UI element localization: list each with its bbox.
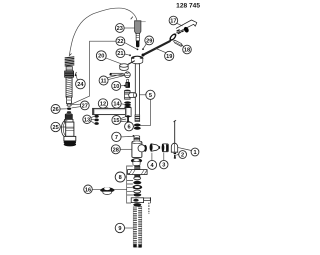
balloon 4 [148, 160, 157, 169]
balloon 16 [84, 185, 93, 194]
balloon 3 [160, 160, 168, 168]
balloon 9 [115, 223, 124, 232]
strap clip [174, 40, 183, 46]
balloon 27 [80, 101, 89, 110]
dark ring [67, 111, 71, 113]
balloon 17 [169, 16, 178, 25]
svg-text:27: 27 [82, 103, 88, 109]
dot 29 [142, 48, 144, 50]
balloon 1 [191, 148, 199, 156]
svg-text:3: 3 [162, 163, 165, 169]
white ring2 [134, 190, 141, 193]
cap 20 [120, 61, 135, 71]
balloon 26 [51, 105, 60, 114]
cartridge with wings [128, 166, 148, 177]
spout tube 12 [93, 108, 132, 117]
nuts 13 [94, 115, 98, 125]
balloon 2 [179, 151, 187, 159]
svg-text:15: 15 [113, 118, 119, 124]
threaded shank 9 [133, 207, 142, 248]
cut tick near weight [131, 17, 133, 20]
balloon 23 [115, 24, 124, 33]
balloon 29 [145, 36, 154, 45]
svg-text:16: 16 [85, 187, 91, 193]
white ring [134, 177, 141, 180]
black ring 26 [67, 108, 71, 110]
svg-text:6: 6 [127, 125, 130, 131]
balloon 28 [111, 145, 120, 154]
collar [66, 67, 72, 71]
svg-text:26: 26 [52, 107, 58, 113]
tick by nut [75, 72, 77, 76]
svg-text:128 745: 128 745 [176, 3, 200, 10]
o-ring [133, 181, 141, 185]
svg-text:10: 10 [113, 84, 119, 90]
svg-text:29: 29 [146, 38, 152, 44]
part 16 [100, 187, 115, 194]
dark ring [133, 193, 141, 196]
svg-text:5: 5 [149, 93, 152, 99]
svg-text:25: 25 [52, 125, 58, 131]
bracket 8 [127, 166, 134, 204]
leader balloon22 long polyline [72, 41, 116, 104]
balloon 25 [51, 122, 60, 131]
cap 7 [133, 135, 140, 142]
cut tick near spring [70, 54, 72, 56]
svg-text:11: 11 [101, 79, 107, 85]
balloon 24 [76, 79, 86, 89]
o-rings 6 [134, 124, 141, 127]
svg-text:9: 9 [118, 226, 121, 232]
flange at top of riser [131, 56, 143, 64]
balloon 22 [116, 37, 125, 46]
balloon 5 [146, 90, 155, 99]
balloon 15 [112, 116, 121, 125]
part 4 [150, 144, 161, 152]
rings 14 [124, 101, 131, 108]
dot 21 [129, 54, 131, 56]
balloon 21 [116, 49, 125, 58]
svg-text:13: 13 [84, 117, 90, 123]
knob part [125, 72, 131, 78]
pin bar 11 [109, 73, 123, 75]
spring [65, 57, 75, 66]
svg-text:20: 20 [98, 54, 104, 60]
svg-text:21: 21 [117, 51, 123, 57]
svg-text:17: 17 [170, 19, 176, 25]
hose end fitting [67, 97, 72, 103]
svg-text:8: 8 [119, 175, 122, 181]
svg-text:24: 24 [77, 82, 84, 88]
balloon 20 [96, 51, 106, 61]
balloon 10 [112, 81, 121, 90]
leader16 line [92, 188, 126, 190]
part 3 [162, 144, 169, 152]
svg-text:1: 1 [193, 150, 196, 156]
stack: dome ring [131, 158, 142, 165]
balloon 18 [183, 45, 192, 54]
svg-text:28: 28 [113, 147, 119, 153]
balloon 19 [165, 51, 174, 60]
body 28 [132, 141, 147, 158]
svg-text:23: 23 [117, 26, 123, 32]
ring 18 [168, 32, 178, 42]
svg-text:2: 2 [181, 153, 184, 159]
hex nut 24 [65, 71, 74, 77]
balloon 13 [83, 115, 91, 123]
large ring [132, 185, 142, 189]
svg-text:18: 18 [184, 48, 190, 54]
svg-text:14: 14 [113, 102, 120, 108]
svg-text:22: 22 [117, 39, 123, 45]
bottle 10 [125, 80, 130, 88]
wide cylinder with pin [131, 197, 150, 214]
ribbed hose 24 [66, 77, 72, 97]
spray head 25 [61, 114, 76, 147]
white ring 27 [67, 104, 71, 106]
svg-text:7: 7 [115, 135, 118, 141]
bottom dark ring [133, 203, 141, 206]
screw 15 [126, 115, 130, 122]
pull rod 2 [171, 120, 177, 159]
lever rod 19 [142, 41, 170, 56]
hose curve [69, 8, 137, 56]
svg-text:19: 19 [166, 54, 172, 60]
hose weight part 23 [135, 21, 146, 51]
balloon 12 [98, 99, 107, 108]
handle 17 [176, 20, 197, 34]
balloon 11 [99, 76, 108, 85]
balloon 14 [112, 99, 121, 108]
leaders [124, 27, 134, 29]
elbow diverter [124, 90, 136, 100]
riser tube 5 [135, 64, 140, 122]
svg-text:12: 12 [100, 102, 106, 108]
balloon 6 [125, 122, 134, 131]
balloon 7 [112, 132, 121, 141]
balloon 8 [115, 172, 125, 182]
